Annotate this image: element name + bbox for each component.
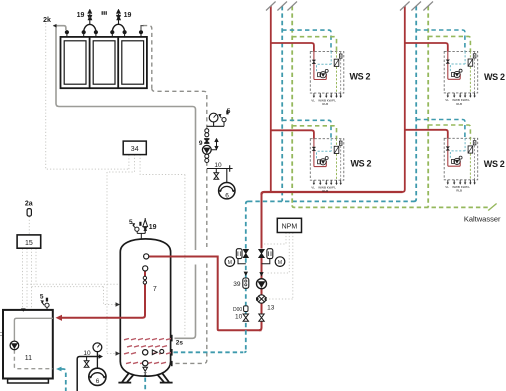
small valve at tank bottom [144,372,147,375]
sensor line 34 to tank 2s sensor [140,155,185,336]
svg-text:34: 34 [131,146,139,153]
fresh water station WS 2 (bottom-right) [444,138,478,192]
fitting circles on red pipe [143,276,146,279]
red supply line down from trunk [259,193,262,331]
wall connection marks left of boiler [0,333,5,336]
pipe 2k junction down, across, down to tank port 2s (jump gap at red crossing) [56,26,196,250]
drain valve on red [259,314,264,321]
svg-text:10: 10 [235,314,243,321]
svg-text:10: 10 [83,350,91,357]
strainer left [236,249,242,259]
teal riser 1 [281,6,283,201]
svg-text:6: 6 [225,192,229,199]
charging pump [257,279,267,289]
wire [175,264,207,364]
dotted line to 13 [266,298,293,300]
svg-text:15: 15 [25,240,33,247]
unit2 green branch [428,36,470,51]
fitting circles below pump [205,154,209,158]
top connection triangle [21,308,26,311]
sensor line 2a to box 15 [28,217,30,235]
air vent valve 19 (right) [116,9,120,25]
svg-text:5: 5 [129,219,133,226]
drain valve on branch [214,169,219,180]
collector panel divider 2 [117,37,119,88]
riser continuation slashes [266,2,433,11]
red riser 2 [402,6,405,192]
svg-text:19: 19 [77,12,85,19]
sensor line from 2k down to controller 34 [46,23,129,169]
bracket right [262,259,270,264]
bracket left [238,259,246,264]
svg-text:6: 6 [96,378,100,385]
teal vertical through metering group [245,204,247,350]
svg-text:19: 19 [124,12,132,19]
bottom port circle [143,361,148,366]
tank mid port circle [143,266,148,271]
tank top port circle [144,254,149,259]
stub port6 to dashed pipe [141,26,144,30]
tank body [120,239,170,376]
svg-text:NPM: NPM [282,224,298,231]
svg-text:2s: 2s [176,339,184,346]
teal pipe boiler return to bottom [61,369,66,391]
sensor bundle below box 15 [23,249,37,310]
shutoff valve on teal line [243,249,248,257]
pressure gauge [209,113,218,122]
teal trunk horizontal [248,200,414,202]
internal flow pipe [14,318,52,341]
sensor double horizontal to tank sensors [27,284,120,304]
teal corner to trunk [244,201,248,352]
unit4 green branch [428,125,470,138]
svg-text:2a: 2a [25,200,33,207]
tick dashed port right wall [171,361,173,366]
collector ports (6 stems with circles) [65,31,142,37]
gauge branch line [207,125,224,127]
collector connecting arc 2 [112,24,124,32]
svg-text:19: 19 [149,224,157,231]
drain valve [84,357,89,368]
tick 2s on right wall [171,335,173,342]
collector panel divider 1 [89,37,91,88]
unit1 teal branch [282,30,331,51]
boiler pump [10,341,19,350]
internal return pipe (dashed) [14,350,52,369]
tick teal port right wall [171,349,173,356]
svg-text:7: 7 [153,286,157,293]
motor valve M left [225,257,235,267]
svg-text:39: 39 [233,281,241,288]
solar pump [202,145,211,154]
sensor arrow onto tank wall (lower) [116,351,121,355]
water meter 39 on teal [243,278,249,288]
red pipe tank mid port down and to boiler 11 [61,271,145,318]
strainer right [267,249,273,259]
teal pipe tank bottom down [144,378,146,391]
safety valve group 5 on boiler [42,298,50,310]
fresh water station WS 2 (top-left) [310,52,344,106]
air vent valve 19 (left) [88,9,92,25]
unit3 teal branch [282,120,331,138]
unit1 red branch [271,43,314,52]
motor valve M right [275,257,285,267]
2k flow arrow [53,24,57,28]
tank legs [118,373,172,382]
NPM control dotted lines [263,233,293,299]
sensor line to tank bottom sensor [107,353,117,355]
svg-text:9: 9 [199,140,203,147]
svg-text:WS 2: WS 2 [484,159,505,169]
svg-text:Kaltwasser: Kaltwasser [464,214,501,223]
svg-text:M: M [228,260,232,266]
fresh water station WS 2 (bottom-left) [310,139,344,193]
collector panel 2 inner [93,41,115,84]
teal pipe from tank to riser corner [174,351,244,353]
unit4 teal branch [416,120,465,139]
sensor 2a symbol [27,209,31,217]
teal flow arrow in mixing line [244,272,248,276]
red riser 1 [270,6,272,192]
collector panel 1 inner [64,41,86,84]
unit2 teal branch [416,30,465,51]
svg-text:WS 2: WS 2 [350,72,371,82]
three-way valve 13 [257,295,265,303]
wire [175,265,196,339]
green riser 2 [427,6,429,207]
teal riser 2 [414,6,416,201]
red flow arrow [259,272,263,276]
unit1 green branch [292,37,336,52]
fresh water station WS 2 (top-right) [444,51,478,105]
unit2 red branch [405,43,448,51]
svg-text:5: 5 [227,108,231,115]
unit3 red branch [271,130,314,138]
boiler body [3,310,53,379]
svg-text:WS 2: WS 2 [484,72,505,82]
svg-text:10: 10 [214,162,222,169]
green trunk Kaltwasser [292,205,489,207]
teal arrow into boiler [56,367,62,372]
pipe with corner [77,357,99,391]
flow arrow inside tank [152,350,157,355]
collector panel 3 inner [122,41,144,84]
quantity mark III [102,11,106,15]
mid port circle [143,350,148,355]
svg-text:11: 11 [25,355,32,362]
flow arrow [99,354,103,358]
vent branch with arrow [211,138,218,150]
sensor arrow onto tank wall (upper) [116,302,121,306]
sensor line into boiler 11 to pump [29,311,31,340]
shutoff valve on red line [259,249,265,257]
red arrow into boiler 11 [56,315,63,321]
shutoff valve 9 [204,139,209,144]
unit4 red branch [405,130,448,139]
unit3 green branch [292,126,336,139]
red pipe tank top port to mixing loop [149,257,262,331]
sensor line 34 to tank lower sensor [107,155,135,354]
dashed pipe collector port 6 to solar station and tank bottom [143,26,152,89]
circulation port circle (near wall) [160,349,164,353]
safety valve group 5 [219,110,229,126]
expansion vessel pump 6 [89,368,106,385]
micro fitting on teal line (D00) [244,306,248,312]
hollow arrow below tank bottom port [143,367,148,371]
drain valve on teal [243,314,248,321]
fitting double circles [205,129,209,133]
svg-text:2k: 2k [43,17,51,24]
collector connecting arc 1 [84,24,96,32]
svg-text:5: 5 [40,294,44,301]
boiler base [8,379,49,383]
green trunk end slash [488,204,496,211]
collector array outer frame [61,37,147,88]
svg-text:D00: D00 [233,307,242,313]
pipe from 2k junction to collector port 1 [54,26,66,30]
svg-text:M: M [278,260,282,266]
expansion vessel pump 6 (station) [226,169,228,183]
wire [152,88,207,247]
svg-text:13: 13 [267,304,275,311]
pressure gauge [93,343,102,352]
tank vent group (5 / 19) on dome [133,218,148,239]
green riser 1 [291,6,293,206]
fill branch 10 with KFE cock [207,165,233,172]
svg-text:WS 2: WS 2 [351,159,372,169]
heat exchanger hatching (solar coil) [124,339,171,364]
